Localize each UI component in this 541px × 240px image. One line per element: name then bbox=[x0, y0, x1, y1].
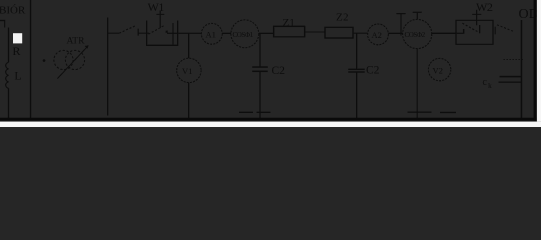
junction dashes bbox=[239, 111, 253, 113]
capacitor C2 plates bbox=[252, 66, 267, 68]
switch W1 contact dot bbox=[166, 31, 168, 33]
voltmeter V1 bbox=[177, 58, 201, 82]
svg-text:COSΦ1: COSΦ1 bbox=[233, 31, 254, 39]
wire COSphi2 to W2 bbox=[432, 32, 456, 34]
svg-text:Z1: Z1 bbox=[283, 17, 295, 29]
contact tick (right of W2) bbox=[494, 27, 496, 34]
wire Z1 to Z2 bbox=[305, 31, 325, 33]
wire left vertical bus bbox=[30, 0, 32, 119]
svg-text:R: R bbox=[13, 44, 21, 58]
capacitor C2 branch lower bbox=[259, 71, 261, 119]
capacitor C2' branch lower bbox=[356, 72, 358, 119]
capacitor Ck plates bbox=[500, 76, 522, 78]
terminal stub bbox=[400, 14, 402, 36]
page margin right bbox=[537, 0, 541, 122]
svg-text:A2: A2 bbox=[372, 30, 382, 40]
page margin bottom bbox=[0, 122, 541, 127]
wire bbox=[222, 32, 231, 34]
switch blade (right of W2) bbox=[497, 25, 515, 32]
capacitor C2' branch upper bbox=[356, 33, 358, 69]
voltmeter V1 branch upper bbox=[188, 33, 190, 58]
switch W2 pivot tick bbox=[463, 29, 465, 34]
frame bottom border bbox=[0, 118, 537, 121]
meter COSphi2 bottom wire bbox=[416, 49, 418, 119]
svg-text:BIÓR: BIÓR bbox=[0, 5, 26, 17]
switch W1 contact bar bbox=[172, 23, 174, 45]
meter COSphi2 top stub bbox=[416, 12, 418, 19]
switch blade (left of W1) bbox=[119, 25, 136, 33]
svg-text:C2: C2 bbox=[272, 65, 286, 77]
switch W2 actuator bbox=[476, 10, 478, 26]
wire to A1 bbox=[167, 32, 201, 34]
svg-text:W1: W1 bbox=[148, 0, 165, 14]
switch W2 contact tick bbox=[479, 25, 481, 33]
wire vertical after ATR bbox=[107, 18, 109, 116]
wire bbox=[138, 32, 149, 34]
wire, node to C2 branch bbox=[259, 32, 274, 34]
resistor R bbox=[13, 33, 22, 43]
switch W2 blade bbox=[462, 23, 478, 32]
wire load top corner bbox=[0, 21, 5, 28]
ammeter A2 bbox=[368, 24, 389, 45]
voltmeter V2 bbox=[428, 58, 450, 80]
svg-text:V2: V2 bbox=[433, 66, 443, 76]
svg-text:Z2: Z2 bbox=[336, 12, 349, 24]
capacitor C2 branch upper bbox=[259, 33, 261, 67]
wire load branch upper bbox=[8, 28, 10, 63]
wire right vertical bus bbox=[520, 20, 522, 119]
svg-text:L: L bbox=[15, 71, 22, 83]
power-factor meter COSphi2 bbox=[403, 19, 432, 48]
svg-text:C2: C2 bbox=[366, 65, 380, 77]
svg-text:A1: A1 bbox=[206, 30, 216, 40]
switch W1 actuator bbox=[159, 11, 161, 28]
autotransformer ATR windings bbox=[54, 50, 73, 69]
impedance Z2 bbox=[325, 27, 353, 38]
frame right border bbox=[534, 0, 537, 121]
wire inside W2 bbox=[456, 32, 464, 34]
wire A2 to COSphi2 bbox=[388, 32, 403, 34]
switch W1 enclosure bbox=[147, 21, 178, 46]
power-factor meter COSphi1 bbox=[231, 20, 259, 48]
wire load branch lower bbox=[8, 88, 10, 119]
autotransformer ATR wiper arrow bbox=[58, 47, 87, 78]
wire main line to switch bbox=[108, 32, 119, 34]
dotted wire bbox=[504, 59, 524, 61]
wire Z2 to A2, node bbox=[353, 32, 368, 34]
page background bbox=[0, 0, 541, 127]
svg-text:c: c bbox=[483, 77, 488, 88]
ammeter A1 bbox=[201, 23, 222, 44]
node dot bbox=[43, 59, 46, 62]
svg-text:k: k bbox=[488, 81, 492, 90]
contact tick bbox=[137, 29, 139, 36]
switch W2 box bbox=[456, 20, 493, 44]
svg-text:V1: V1 bbox=[182, 66, 192, 76]
svg-text:COSΦ2: COSΦ2 bbox=[405, 31, 426, 39]
inductor L bbox=[6, 62, 9, 88]
svg-text:W2: W2 bbox=[476, 0, 493, 14]
voltmeter V1 branch lower bbox=[188, 83, 190, 119]
switch W1 blade bbox=[149, 26, 165, 35]
impedance Z1 bbox=[274, 26, 305, 36]
svg-text:ATR: ATR bbox=[67, 37, 86, 47]
capacitor C2' plates bbox=[348, 68, 365, 70]
